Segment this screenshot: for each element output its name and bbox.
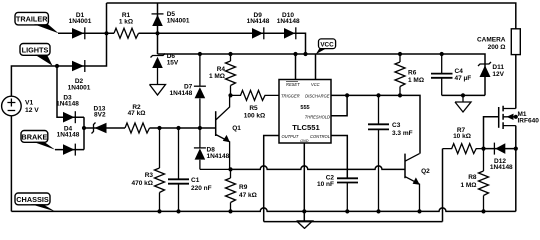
svg-text:C4: C4 — [455, 68, 464, 75]
svg-text:3.3 mF: 3.3 mF — [392, 130, 413, 137]
svg-text:TRAILER: TRAILER — [16, 15, 48, 24]
wire D3/D4 join vertical — [83, 117, 85, 149]
svg-text:47 kΩ: 47 kΩ — [128, 110, 146, 117]
svg-text:100 kΩ: 100 kΩ — [244, 112, 265, 119]
transistor Q2 — [404, 154, 406, 179]
capacitor C4 — [441, 54, 443, 95]
svg-text:47 kΩ: 47 kΩ — [239, 192, 257, 199]
terminal BRAKE — [21, 131, 48, 143]
wire RESET stub — [295, 54, 297, 80]
zener D13 — [95, 123, 107, 134]
svg-text:47 µF: 47 µF — [455, 75, 472, 82]
svg-text:8V2: 8V2 — [94, 112, 106, 119]
svg-text:12 V: 12 V — [25, 107, 39, 114]
wire VCC rail — [158, 54, 486, 95]
diode D3 — [63, 112, 75, 123]
ground at lower rail — [297, 221, 313, 229]
resistor R6 — [395, 54, 405, 95]
wire lower ground rail — [264, 221, 443, 223]
resistor R4 — [226, 54, 236, 95]
capacitor C1 — [178, 128, 180, 211]
wire D5 D6 column — [157, 3, 159, 54]
terminal LIGHTS — [20, 44, 50, 56]
svg-text:Q2: Q2 — [421, 168, 430, 175]
svg-text:12V: 12V — [492, 71, 504, 78]
svg-text:1 MΩ: 1 MΩ — [460, 182, 476, 189]
svg-text:1 kΩ: 1 kΩ — [119, 19, 133, 26]
svg-text:1N4001: 1N4001 — [68, 85, 91, 92]
wire V1 negative to chassis rail — [10, 116, 12, 212]
svg-text:IRF640: IRF640 — [518, 118, 540, 125]
IC U1 555 box — [279, 80, 331, 144]
resistor R5 — [231, 90, 280, 100]
svg-text:10 kΩ: 10 kΩ — [453, 133, 471, 140]
svg-text:R5: R5 — [249, 105, 258, 112]
diode D8 — [200, 128, 231, 169]
wire output net D8 to Q2 base — [231, 166, 406, 169]
ground under D6 — [150, 68, 166, 95]
svg-text:D11: D11 — [492, 64, 504, 71]
wire DISCHARGE THRESHOLD loop — [331, 95, 347, 115]
svg-text:CHASSIS: CHASSIS — [16, 195, 49, 204]
wire GND stub to ground — [303, 143, 305, 221]
wire VCC stub — [315, 54, 317, 80]
transistor Q1 — [215, 111, 217, 136]
svg-text:RESET: RESET — [286, 82, 300, 87]
wire top bus — [107, 3, 516, 29]
svg-text:BRAKE: BRAKE — [21, 133, 47, 142]
source V1 — [2, 96, 22, 116]
svg-text:CONTROL: CONTROL — [310, 134, 330, 139]
svg-text:C3: C3 — [392, 122, 401, 129]
ground under C4/D11 — [455, 95, 471, 112]
diode D1 — [72, 28, 84, 39]
svg-text:R3: R3 — [145, 172, 154, 179]
diode D7 — [199, 54, 201, 128]
capacitor C3 — [378, 95, 380, 211]
diode D5 — [152, 15, 163, 26]
svg-text:1N4148: 1N4148 — [56, 100, 79, 107]
diode D4 — [63, 144, 75, 155]
svg-text:VCC: VCC — [311, 82, 320, 87]
svg-text:Q1: Q1 — [232, 125, 241, 132]
resistor R3 — [155, 128, 165, 211]
svg-text:1N4148: 1N4148 — [170, 90, 193, 97]
wire BRAKE line — [55, 149, 84, 151]
svg-text:1N4148: 1N4148 — [490, 164, 513, 171]
wire LIGHTS line and riser to top bus — [11, 3, 106, 96]
resistor CAMERA — [511, 29, 520, 55]
zener D6 — [152, 57, 163, 68]
svg-text:R8: R8 — [468, 174, 477, 181]
resistor R1 — [114, 28, 139, 38]
terminal CHASSIS — [15, 193, 50, 205]
svg-text:1 MΩ: 1 MΩ — [408, 77, 424, 84]
svg-text:220 nF: 220 nF — [191, 185, 212, 192]
svg-text:470 kΩ: 470 kΩ — [132, 180, 153, 187]
svg-text:CAMERA: CAMERA — [477, 37, 506, 44]
svg-text:R9: R9 — [239, 184, 248, 191]
resistor R7 — [442, 149, 444, 222]
svg-text:1N4148: 1N4148 — [247, 18, 270, 25]
wire main line TRAILER to VCC drop — [58, 33, 306, 54]
svg-text:15V: 15V — [167, 59, 179, 66]
wire D3 branch from LIGHTS — [57, 66, 84, 117]
resistor R2 — [125, 123, 150, 133]
svg-text:VCC: VCC — [320, 41, 334, 48]
svg-text:555: 555 — [300, 105, 309, 111]
diode D9 — [252, 28, 263, 39]
svg-text:LIGHTS: LIGHTS — [22, 46, 49, 55]
svg-text:C1: C1 — [191, 177, 200, 184]
wire threshold net to Q2 collector — [347, 95, 420, 153]
svg-text:GND: GND — [300, 139, 309, 143]
svg-text:200 Ω: 200 Ω — [488, 44, 506, 51]
wire chassis rail — [11, 208, 515, 211]
svg-text:TLC551: TLC551 — [292, 123, 320, 132]
resistor R8 — [479, 149, 489, 212]
svg-text:OUTPUT: OUTPUT — [282, 134, 299, 139]
svg-text:TRIGGER: TRIGGER — [281, 93, 300, 98]
wire C4 bottom to D11 bottom — [442, 94, 485, 96]
svg-text:1N4148: 1N4148 — [57, 132, 80, 139]
zener D11 — [480, 65, 491, 77]
resistor R9 — [226, 169, 236, 211]
svg-text:1N4001: 1N4001 — [167, 18, 190, 25]
mosfet M1 — [484, 117, 499, 149]
terminal TRAILER — [15, 12, 48, 25]
svg-text:DISCHARGE: DISCHARGE — [305, 93, 330, 98]
svg-text:THRESHOLD: THRESHOLD — [305, 114, 330, 119]
svg-text:R4: R4 — [217, 66, 226, 73]
svg-text:1N4148: 1N4148 — [207, 153, 230, 160]
svg-text:R6: R6 — [408, 70, 417, 77]
svg-text:V1: V1 — [25, 99, 33, 106]
svg-text:1N4148: 1N4148 — [277, 18, 300, 25]
diode D12 — [484, 148, 516, 150]
wire D13 R2 base line — [84, 127, 216, 129]
svg-text:10 nF: 10 nF — [317, 181, 334, 188]
svg-text:1 MΩ: 1 MΩ — [209, 73, 225, 80]
capacitor C2 — [337, 178, 358, 182]
terminal VCC — [319, 39, 336, 49]
diode D2 — [72, 61, 84, 72]
svg-text:1N4001: 1N4001 — [69, 18, 92, 25]
wire OUTPUT drop to lower rail — [264, 136, 279, 222]
diode D10 — [284, 28, 295, 39]
wire CONTROL to C2 — [331, 136, 347, 179]
node junction D1/R1/D2 — [104, 31, 108, 35]
